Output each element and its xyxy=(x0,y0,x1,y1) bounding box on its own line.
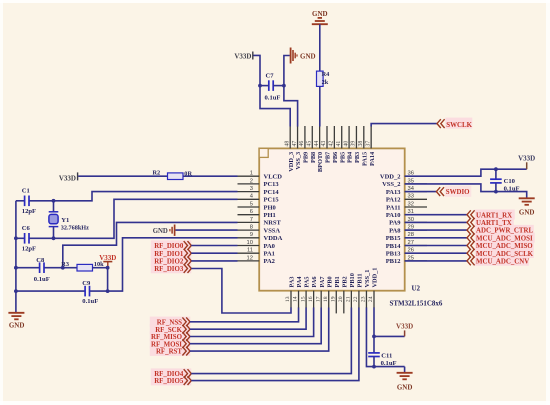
port label MCU_ADC_CNV xyxy=(467,257,529,266)
wire VDD_1 node to V33D port xyxy=(374,335,405,337)
port label RF_DIO2 xyxy=(154,257,191,266)
svg-text:SWDIO: SWDIO xyxy=(446,189,470,196)
junction C10 top xyxy=(494,167,498,171)
capacitor C11 xyxy=(368,353,380,367)
svg-text:13: 13 xyxy=(285,296,291,302)
svg-text:GND: GND xyxy=(312,10,328,18)
svg-text:PC13: PC13 xyxy=(264,181,280,188)
junction R3 left / NRST node xyxy=(61,266,65,270)
svg-text:1: 1 xyxy=(250,171,253,177)
U2 pin 42 (PB6) top leg xyxy=(329,126,339,163)
junction ground rail at C8 row xyxy=(14,266,18,270)
wire V33D to resistor R2 xyxy=(78,175,167,177)
capacitor C1 xyxy=(24,196,26,207)
svg-text:PA13: PA13 xyxy=(386,189,401,196)
svg-text:PB8: PB8 xyxy=(310,152,317,163)
capacitor C8 xyxy=(39,262,41,273)
svg-text:7: 7 xyxy=(250,217,253,223)
wire RF_NSS to U2 pin 14 xyxy=(190,308,299,322)
svg-text:12pF: 12pF xyxy=(22,245,36,252)
svg-text:VDDA: VDDA xyxy=(264,235,283,242)
svg-text:RF_DIO1: RF_DIO1 xyxy=(154,251,184,258)
svg-text:43: 43 xyxy=(321,141,327,147)
svg-text:6: 6 xyxy=(250,209,253,215)
svg-text:32: 32 xyxy=(408,201,414,207)
wire U2 pin 27 to MCU_ADC_MISO port xyxy=(405,245,467,247)
crystal Y1 xyxy=(49,201,59,239)
port label highlight boxes (RF_DIO4-5 group) xyxy=(151,368,192,385)
svg-text:PB0: PB0 xyxy=(326,276,333,287)
wire V33D node down to C9 row xyxy=(107,268,109,291)
wire C8 row xyxy=(16,267,40,269)
wire RF_DIO4 to U2 pin 21 xyxy=(191,308,351,374)
wire ground rail (left) xyxy=(15,201,17,313)
svg-text:19: 19 xyxy=(330,296,336,302)
svg-text:5: 5 xyxy=(250,201,253,207)
svg-text:PB10: PB10 xyxy=(349,273,356,287)
wire R2 to U2 pin 1 VLCD xyxy=(183,175,238,177)
wire C7 right node to U2 pin 47 VSS_3 xyxy=(284,86,298,127)
svg-text:15: 15 xyxy=(300,296,306,302)
port label UART1_TX xyxy=(467,218,512,227)
U2 pin 6 (PH1) left leg xyxy=(238,209,276,219)
svg-text:PB3: PB3 xyxy=(354,152,361,163)
port label RF_DIO5 xyxy=(154,376,191,385)
svg-text:R4: R4 xyxy=(322,71,331,78)
svg-text:45: 45 xyxy=(306,141,312,147)
U2 pin 8 (VSSA) left leg xyxy=(238,225,281,235)
wire C6 row to crystal bottom node to U2 pin 4 PC15 xyxy=(16,237,25,239)
svg-text:32.768kHz: 32.768kHz xyxy=(61,224,89,231)
svg-text:PB1: PB1 xyxy=(334,276,341,287)
svg-text:PB14: PB14 xyxy=(386,243,402,250)
U2 pin 3 (PC14) left leg xyxy=(238,186,280,196)
svg-text:2: 2 xyxy=(250,178,253,184)
svg-text:23: 23 xyxy=(361,296,367,302)
svg-text:C10: C10 xyxy=(504,178,516,185)
wire RF_MISO to U2 pin 16 xyxy=(190,308,314,337)
junction crystal top node xyxy=(52,199,56,203)
U2 pin 48 (VDD_3) top leg xyxy=(284,126,294,172)
svg-text:C1: C1 xyxy=(22,188,30,195)
wire U2 pin 25 to MCU_ADC_CNV port xyxy=(405,260,467,262)
svg-text:PB6: PB6 xyxy=(332,152,339,163)
wire C7 left node to U2 pin 48 VDD_3 xyxy=(260,86,290,127)
svg-text:C6: C6 xyxy=(22,225,31,232)
U2 pin 34 (PA13) right leg xyxy=(386,186,427,196)
svg-text:RF_SCK: RF_SCK xyxy=(155,327,182,334)
wire RF_DIO5 to U2 pin 22 xyxy=(191,308,359,381)
svg-text:37: 37 xyxy=(365,141,371,147)
svg-text:PA3: PA3 xyxy=(289,276,296,287)
svg-text:24: 24 xyxy=(368,296,374,302)
U2 pin 35 (VSS_2) right leg xyxy=(382,178,427,188)
junction VDD_1 / V33D tap xyxy=(372,335,376,339)
svg-text:UART1_TX: UART1_TX xyxy=(476,220,512,227)
ground symbol GND (bottom left) xyxy=(8,313,24,330)
U2 pin 39 (PB3) top leg xyxy=(351,126,361,163)
svg-text:GND: GND xyxy=(519,209,535,217)
svg-text:18: 18 xyxy=(323,296,329,302)
svg-text:PA9: PA9 xyxy=(389,220,401,227)
U2 pin 28 (PB15) right leg xyxy=(386,232,427,242)
port label RF_MISO xyxy=(151,332,190,341)
svg-text:C7: C7 xyxy=(266,73,275,80)
U2 pin 30 (PA9) right leg xyxy=(389,217,427,227)
svg-text:Y1: Y1 xyxy=(61,217,69,224)
svg-text:11: 11 xyxy=(247,248,253,254)
svg-text:PB11: PB11 xyxy=(357,274,364,288)
port label MCU_ADC_MOSI xyxy=(467,233,533,242)
port label RF_DIO0 xyxy=(154,241,191,250)
U2 pin 16 (PA6) bottom leg xyxy=(308,276,318,308)
svg-text:V33D: V33D xyxy=(59,175,76,183)
U2 pin 26 (PB13) right leg xyxy=(386,248,427,258)
U2 pin 17 (PA7) bottom leg xyxy=(315,276,325,308)
wire RF_DIO3 to U2 pin 13 PA3 xyxy=(191,269,291,314)
U2 pin 2 (PC13) left leg xyxy=(238,178,280,188)
resistor R3 xyxy=(63,264,108,271)
svg-text:10k: 10k xyxy=(94,261,104,268)
svg-text:PB13: PB13 xyxy=(386,251,402,258)
U2 pin 19 (PB1) bottom leg xyxy=(330,276,340,313)
svg-text:VDD_2: VDD_2 xyxy=(380,174,401,181)
port label RF_RST xyxy=(156,347,190,356)
svg-text:RF_DIO5: RF_DIO5 xyxy=(154,378,184,385)
capacitor C6 xyxy=(24,233,26,244)
svg-text:PA10: PA10 xyxy=(386,212,401,219)
power port V33D (left) xyxy=(59,172,78,182)
svg-text:RF_NSS: RF_NSS xyxy=(157,319,182,326)
svg-text:MCU_ADC_CNV: MCU_ADC_CNV xyxy=(476,259,529,266)
junction C7 right xyxy=(282,84,286,88)
port label MCU_ADC_MISO xyxy=(467,241,533,250)
wire U2 pin 29 to ADC_PWR_CTRL port xyxy=(405,229,467,231)
svg-text:PB2: PB2 xyxy=(341,276,348,287)
svg-text:C11: C11 xyxy=(381,353,392,360)
U2 pin 4 (PC15) left leg xyxy=(238,194,280,204)
svg-text:PH1: PH1 xyxy=(264,212,276,219)
wire RF_DIO0 to U2 pin 10 xyxy=(191,245,237,247)
svg-text:38: 38 xyxy=(358,141,364,147)
junction ground rail at C9 row xyxy=(14,289,18,293)
svg-text:PB7: PB7 xyxy=(325,152,332,163)
svg-text:V33D: V33D xyxy=(234,52,251,60)
capacitor C7 xyxy=(260,80,284,91)
svg-text:33: 33 xyxy=(408,194,414,200)
svg-text:VDD_1: VDD_1 xyxy=(372,268,379,288)
wire RF_DIO1 to U2 pin 11 xyxy=(191,252,237,254)
svg-text:ADC_PWR_CTRL: ADC_PWR_CTRL xyxy=(476,228,533,235)
svg-text:VSSA: VSSA xyxy=(264,227,281,234)
ground symbol GND (below C11) xyxy=(397,367,413,392)
svg-text:PA2: PA2 xyxy=(264,258,275,265)
svg-text:V33D: V33D xyxy=(518,154,535,162)
svg-text:46: 46 xyxy=(299,141,305,147)
U2 pin 25 (PB12) right leg xyxy=(386,255,427,265)
IC U2 (STM32L151C8x6 MCU) body xyxy=(259,148,405,290)
power port V33D (top left) xyxy=(234,52,252,61)
wire C9 node to U2 pin 9 VDDA xyxy=(108,238,238,291)
junction crystal bottom node xyxy=(52,236,56,240)
wire U2 pin 37 PA14 to SWCLK port xyxy=(371,124,437,127)
wire V33D to C7 left node xyxy=(254,55,261,85)
svg-text:48: 48 xyxy=(284,141,290,147)
port label RF_SCK xyxy=(155,325,190,334)
U2 pin 44 (BPOT0) top leg xyxy=(314,126,324,172)
svg-text:BPOT0: BPOT0 xyxy=(317,152,324,172)
svg-text:0.1uF: 0.1uF xyxy=(34,276,50,283)
U2 pin 38 (PA15) top leg xyxy=(358,126,368,166)
junction ground rail at C6 row xyxy=(14,236,18,240)
svg-text:GND: GND xyxy=(9,321,25,329)
svg-text:VLCD: VLCD xyxy=(264,174,283,181)
svg-text:3: 3 xyxy=(250,186,253,192)
power port V33D (at C11) xyxy=(396,323,413,337)
wire C1 row to crystal top node to U2 pin 3 PC14 xyxy=(16,200,25,202)
svg-text:STM32L151C8x6: STM32L151C8x6 xyxy=(390,300,443,308)
ground symbol GND (right of C10) xyxy=(519,198,535,216)
wire U2 pin 7 NRST to R3 left node xyxy=(63,222,238,267)
U2 pin 33 (PA12) right leg xyxy=(386,194,427,204)
svg-text:C8: C8 xyxy=(36,257,45,264)
junction C7 left xyxy=(258,84,262,88)
U2 pin 24 (VDD_1) bottom leg xyxy=(368,268,378,308)
svg-text:9: 9 xyxy=(250,232,253,238)
port label highlight boxes (RF SPI group) xyxy=(150,317,191,356)
svg-text:R3: R3 xyxy=(61,261,69,268)
wire RF_DIO2 to U2 pin 12 xyxy=(191,260,237,262)
svg-text:PA1: PA1 xyxy=(264,251,275,258)
port label MCU_ADC_SCLK xyxy=(467,249,534,258)
wire GND to resistor R4 xyxy=(319,24,321,71)
wire U2 pin 28 to MCU_ADC_MOSI port xyxy=(405,237,467,239)
U2 pin 18 (PB0) bottom leg xyxy=(323,276,333,308)
svg-text:RF_DIO3: RF_DIO3 xyxy=(154,266,184,273)
svg-text:VSS_1: VSS_1 xyxy=(364,270,371,288)
svg-text:RF_DIO4: RF_DIO4 xyxy=(154,371,184,378)
wire U2 pin 36 VDD_2 to C10 top node and V33D xyxy=(405,169,527,176)
U2 pin 32 (PA11) right leg xyxy=(386,201,427,211)
svg-text:PA7: PA7 xyxy=(319,276,326,287)
svg-text:PB15: PB15 xyxy=(386,235,402,242)
port label RF_NSS xyxy=(157,317,190,326)
wire U2 pin 23 VSS_1 to GND xyxy=(366,308,404,367)
svg-text:PB12: PB12 xyxy=(386,258,401,265)
svg-text:PA4: PA4 xyxy=(296,276,303,288)
junction C10 bottom xyxy=(494,190,498,194)
svg-text:0.1uF: 0.1uF xyxy=(82,298,98,305)
svg-text:PA0: PA0 xyxy=(264,243,275,250)
svg-text:PB5: PB5 xyxy=(339,152,346,163)
svg-text:16: 16 xyxy=(308,296,314,302)
capacitor C10 xyxy=(490,169,502,191)
wire RF_SCK to U2 pin 15 xyxy=(190,308,306,330)
svg-text:RF_RST: RF_RST xyxy=(156,349,182,356)
ground port GND (at U2 pin 8 VSSA) xyxy=(153,225,175,236)
svg-text:PA5: PA5 xyxy=(304,276,311,287)
svg-text:40: 40 xyxy=(343,141,349,147)
svg-text:VSS_3: VSS_3 xyxy=(295,152,302,170)
wire U2 pin 26 to MCU_ADC_SCLK port xyxy=(405,252,467,254)
port label RF_DIO1 xyxy=(154,249,191,258)
U2 pin 27 (PB14) right leg xyxy=(386,240,427,250)
svg-text:10: 10 xyxy=(247,240,253,246)
U2 pin 40 (PB4) top leg xyxy=(343,126,353,163)
U2 pin 29 (PA8) right leg xyxy=(389,225,427,235)
U2 pin 20 (PB2) bottom leg xyxy=(338,276,348,313)
resistor R4 xyxy=(317,71,324,86)
svg-text:21: 21 xyxy=(346,296,352,302)
port label RF_DIO4 xyxy=(154,369,191,378)
svg-text:PA14: PA14 xyxy=(369,151,376,166)
svg-text:39: 39 xyxy=(351,141,357,147)
U2 pin 7 (NRST) left leg xyxy=(238,217,282,227)
svg-text:PA6: PA6 xyxy=(311,276,318,287)
svg-text:V33D: V33D xyxy=(396,323,413,331)
svg-text:47: 47 xyxy=(292,141,298,147)
svg-text:PH0: PH0 xyxy=(264,204,276,211)
svg-text:12: 12 xyxy=(247,255,253,261)
svg-text:RF_MISO: RF_MISO xyxy=(151,334,183,341)
svg-text:GND: GND xyxy=(153,228,168,235)
U2 pin 22 (PB11) bottom leg xyxy=(353,274,363,309)
port label highlight boxes (right group) xyxy=(475,210,535,266)
wire U2 pin 24 VDD_1 down to C11 xyxy=(373,308,375,353)
U2 pin 5 (PH0) left leg xyxy=(238,201,276,211)
svg-text:RF_DIO2: RF_DIO2 xyxy=(154,259,184,266)
U2 pin 41 (PB5) top leg xyxy=(336,126,346,163)
U2 pin 43 (PB7) top leg xyxy=(321,126,331,163)
wire RF_RST to U2 pin 18 xyxy=(190,308,329,352)
svg-text:17: 17 xyxy=(315,296,321,302)
port label highlight boxes (RF_DIO0-3 group) xyxy=(151,240,192,273)
svg-text:PA12: PA12 xyxy=(386,197,401,204)
wire U2 pin 35 VSS_2 to C10 bottom node and GND xyxy=(405,184,527,198)
U2 pin 45 (PB8) top leg xyxy=(306,126,316,163)
power port V33D (at R3) xyxy=(99,254,116,268)
svg-text:22: 22 xyxy=(353,296,359,302)
svg-text:PB9: PB9 xyxy=(303,152,310,163)
svg-text:VSS_2: VSS_2 xyxy=(382,181,400,188)
port label SWDIO xyxy=(436,186,471,197)
svg-text:0.1uF: 0.1uF xyxy=(265,95,281,102)
junction C9 right / VDDA node xyxy=(106,289,110,293)
svg-text:12pF: 12pF xyxy=(22,208,36,215)
U2 pin 15 (PA5) bottom leg xyxy=(300,276,310,308)
svg-text:8: 8 xyxy=(250,225,253,231)
svg-text:MCU_ADC_MOSI: MCU_ADC_MOSI xyxy=(476,235,533,242)
capacitor C9 xyxy=(84,286,86,297)
port label RF_DIO3 xyxy=(154,264,191,273)
svg-text:RF_MOSI: RF_MOSI xyxy=(151,341,182,348)
U2 pin 47 (VSS_3) top leg xyxy=(292,126,302,170)
svg-text:RF_DIO0: RF_DIO0 xyxy=(154,243,184,250)
svg-text:VDD_3: VDD_3 xyxy=(288,152,295,172)
svg-text:PA8: PA8 xyxy=(389,227,401,234)
wire C7 right node up to GND port xyxy=(284,56,290,86)
U2 pin 37 (PA14) top leg xyxy=(365,126,375,166)
ground symbol GND (top, inverted) xyxy=(312,10,328,24)
svg-text:C9: C9 xyxy=(82,280,91,287)
svg-text:PC14: PC14 xyxy=(264,189,280,196)
svg-text:41: 41 xyxy=(336,141,342,147)
wire RF_MOSI to U2 pin 17 xyxy=(190,308,321,344)
svg-text:UART1_RX: UART1_RX xyxy=(476,212,512,219)
wire R4 to U2 pin 44 BPOT0 xyxy=(319,86,321,126)
port label RF_MOSI xyxy=(151,339,190,348)
U2 pin 13 (PA3) bottom leg xyxy=(285,276,295,308)
U2 pin 46 (PB9) top leg xyxy=(299,126,309,163)
svg-text:V33D: V33D xyxy=(99,254,116,262)
junction C11 bottom on GND row xyxy=(372,365,376,369)
svg-text:GND: GND xyxy=(397,383,413,391)
svg-text:PB4: PB4 xyxy=(347,151,354,163)
svg-text:44: 44 xyxy=(314,141,320,147)
wire U2 pin 31 to UART1_RX port xyxy=(405,214,467,216)
wire U2 pin 34 PA13 to SWDIO port xyxy=(405,191,437,193)
U2 pin 12 (PA2) left leg xyxy=(238,255,275,265)
svg-text:SWCLK: SWCLK xyxy=(446,122,472,129)
svg-text:U2: U2 xyxy=(412,285,421,293)
U2 pin 11 (PA1) left leg xyxy=(238,248,275,258)
U2 pin 1 (VLCD) left leg xyxy=(238,171,283,181)
wire C9 row xyxy=(16,290,85,292)
U2 pin 14 (PA4) bottom leg xyxy=(293,276,303,308)
junction R3 right / V33D xyxy=(106,266,110,270)
svg-text:14: 14 xyxy=(293,296,299,302)
U2 pin 31 (PA10) right leg xyxy=(386,209,427,219)
U2 pin 10 (PA0) left leg xyxy=(238,240,275,250)
port label UART1_RX xyxy=(467,210,512,219)
svg-text:42: 42 xyxy=(329,141,335,147)
svg-text:2k: 2k xyxy=(322,79,329,86)
U2 pin 23 (VSS_1) bottom leg xyxy=(361,270,371,308)
U2 pin 36 (VDD_2) right leg xyxy=(380,171,427,181)
wire GND port to U2 pin 8 VSSA xyxy=(176,229,238,231)
svg-text:PA15: PA15 xyxy=(361,152,368,166)
power port V33D (right) xyxy=(518,154,535,169)
port label SWCLK xyxy=(437,118,473,129)
svg-text:PC15: PC15 xyxy=(264,197,280,204)
U2 pin 21 (PB10) bottom leg xyxy=(346,273,356,308)
svg-text:NRST: NRST xyxy=(264,220,282,227)
svg-text:0.1uF: 0.1uF xyxy=(381,360,397,367)
svg-text:R2: R2 xyxy=(153,170,161,177)
svg-text:GND: GND xyxy=(300,52,316,60)
svg-text:20: 20 xyxy=(338,296,344,302)
svg-text:MCU_ADC_MISO: MCU_ADC_MISO xyxy=(476,243,533,250)
ground port GND (sideways, near C7) xyxy=(291,48,316,64)
U2 pin 9 (VDDA) left leg xyxy=(238,232,283,242)
svg-text:MCU_ADC_SCLK: MCU_ADC_SCLK xyxy=(476,251,534,258)
port label ADC_PWR_CTRL xyxy=(467,226,533,235)
resistor R2 xyxy=(168,173,184,180)
wire U2 pin 30 to UART1_TX port xyxy=(405,221,467,223)
svg-text:PA11: PA11 xyxy=(386,204,400,211)
